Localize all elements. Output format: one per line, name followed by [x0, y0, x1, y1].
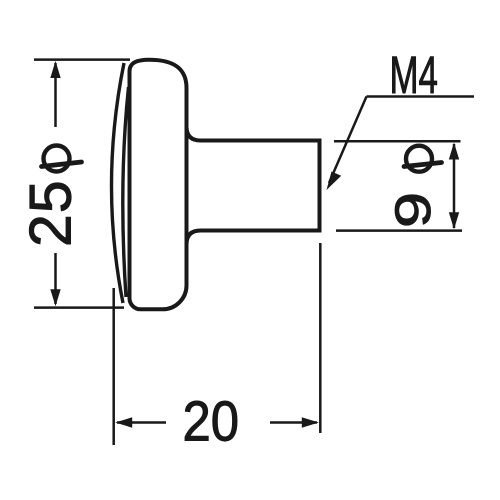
dimension text 25 (rotated) — [29, 183, 71, 244]
extension line bottom (9 dia, lower) — [336, 229, 462, 232]
extension line bottom (25 dia, lower) — [34, 306, 124, 309]
extension line top (25 dia, upper) — [34, 58, 130, 61]
dimension line 25-dia, upper segment with up arrow — [54, 63, 57, 127]
extension line top (9 dia, upper) — [334, 140, 461, 143]
knob front face inner arc — [123, 87, 129, 297]
leader arrowhead at stem end — [327, 172, 342, 191]
dimension text 20 — [185, 401, 237, 441]
extension line right (20 length) — [319, 243, 322, 433]
knob front face outer arc — [111, 63, 124, 303]
leader line diagonal to stem end — [329, 97, 367, 184]
extension line left (20 length) — [112, 288, 115, 445]
knob head body (side view, rounded rectangle) — [130, 60, 187, 310]
leader line horizontal shoulder — [367, 95, 475, 98]
dimension text 9 (rotated) — [395, 195, 430, 225]
dimension line 25-dia, lower segment with down arrow — [54, 253, 57, 304]
dimension symbol phi (left, rotated) — [42, 146, 82, 172]
dimension line 20, right segment with right arrow — [270, 421, 317, 424]
stem with fillets and threaded end — [187, 127, 320, 245]
dimension line 9-dia with arrows both ends — [453, 144, 456, 228]
dimension line 20, left segment with left arrow — [117, 421, 166, 424]
dimension symbol phi (right, rotated) — [404, 146, 442, 172]
label M4 — [392, 57, 437, 93]
